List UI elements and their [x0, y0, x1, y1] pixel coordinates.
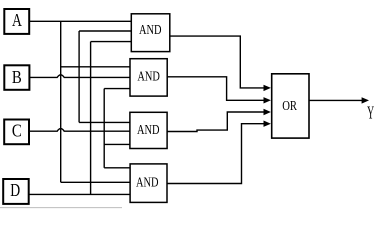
svg-text:D: D — [10, 180, 20, 200]
wire D branch to AND1 input3 — [91, 41, 132, 43]
svg-text:AND: AND — [137, 123, 160, 138]
svg-text:A: A — [12, 10, 22, 30]
arrowhead output Y — [362, 97, 369, 103]
wire C branch to AND4 input1 — [104, 167, 130, 169]
AND gate U2 — [130, 59, 167, 96]
wire C branch to AND3 input3 — [104, 143, 130, 145]
wire B bus vertical — [78, 31, 80, 122]
AND gate U3 — [130, 112, 167, 148]
wire D bus vertical — [90, 42, 92, 195]
input box D — [3, 179, 29, 204]
AND gate U1 — [131, 14, 170, 52]
svg-text:Y: Y — [367, 103, 374, 123]
wire A branch to AND2 input1 — [61, 66, 130, 68]
wire A bus vertical — [60, 21, 62, 182]
arrowhead OR input2 — [264, 97, 271, 103]
wire AND1 output to OR input1 — [170, 36, 264, 88]
AND gate U4 — [130, 164, 167, 203]
wire OR output — [309, 99, 362, 101]
arrowhead OR input4 — [264, 121, 271, 127]
wire C bus vertical — [103, 89, 105, 168]
wire B branch to AND3 input1 — [79, 121, 130, 123]
input box C — [4, 120, 29, 145]
wire D to AND4 input3 — [29, 193, 130, 195]
svg-text:B: B — [12, 67, 22, 87]
svg-text:AND: AND — [139, 23, 162, 38]
wire B to AND2 input2 with hop over A bus — [29, 75, 130, 78]
input box B — [4, 65, 29, 90]
wire AND4 output to OR input4 — [167, 124, 264, 184]
svg-text:C: C — [12, 120, 22, 140]
arrowhead OR input3 — [264, 109, 271, 115]
arrowhead OR input1 — [264, 85, 271, 91]
wire A to AND1 input1 — [29, 20, 131, 22]
OR gate U5 — [272, 74, 309, 138]
wire AND3 output to OR input3 (with jog) — [167, 112, 264, 132]
wire AND2 output to OR input2 — [167, 77, 263, 101]
input box A — [4, 9, 29, 34]
wire C to AND3 input2 with hop over A bus — [29, 129, 130, 132]
svg-text:AND: AND — [137, 70, 160, 85]
svg-text:AND: AND — [136, 175, 159, 190]
wire B branch to AND1 input2 — [79, 30, 131, 32]
faint scan artifact line bottom — [0, 207, 122, 209]
wire C branch to AND2 input3 — [104, 88, 130, 90]
svg-text:OR: OR — [282, 99, 297, 114]
wire A branch to AND4 input2 — [61, 181, 130, 183]
